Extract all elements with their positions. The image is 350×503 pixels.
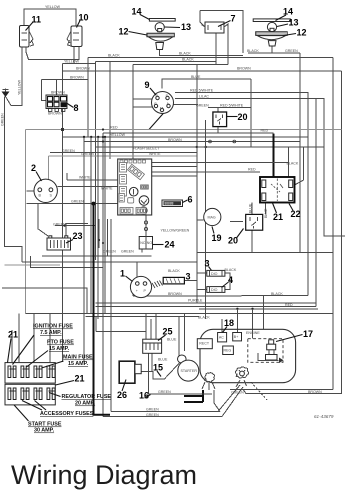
- svg-text:BLUE: BLUE: [249, 203, 253, 213]
- svg-text:LILAC: LILAC: [199, 95, 209, 99]
- wire starter cable thick: [184, 390, 203, 402]
- label 12 right: [284, 28, 307, 38]
- label start fuse: [14, 405, 62, 434]
- wire 25 down to green y394: [149, 353, 212, 394]
- svg-text:25: 25: [163, 327, 173, 337]
- svg-text:20: 20: [228, 236, 238, 246]
- svg-text:GREEN: GREEN: [121, 250, 134, 254]
- wire y262: [22, 261, 197, 263]
- wire green y104.5: [173, 104, 198, 106]
- wire switch7 top loop: [200, 11, 243, 53]
- svg-text:MAG: MAG: [208, 216, 216, 220]
- wire purple y303: [96, 303, 316, 307]
- svg-text:11: 11: [32, 15, 42, 25]
- headlamp left 12: [147, 19, 175, 50]
- svg-text:BLACK: BLACK: [108, 54, 120, 58]
- wire lamp right feed: [248, 46, 300, 53]
- label 20 upper: [227, 112, 248, 122]
- svg-text:YELLOW/GREEN: YELLOW/GREEN: [161, 229, 190, 233]
- label 19: [212, 227, 222, 244]
- label ignition fuse: [13, 324, 74, 365]
- wire 25 down to junction: [151, 353, 153, 371]
- wire module to 24: [144, 215, 147, 237]
- svg-text:BROWN: BROWN: [48, 112, 62, 116]
- connector 8: [46, 95, 67, 112]
- svg-text:15: 15: [153, 363, 163, 373]
- wire lamp left feed: [160, 50, 244, 56]
- svg-text:7.5 AMP.: 7.5 AMP.: [40, 330, 62, 336]
- wire switch9 diagonal to bus: [149, 112, 165, 130]
- wire y288: [2, 288, 87, 314]
- wire solenoid feeds: [179, 314, 185, 356]
- svg-text:8: 8: [74, 103, 79, 113]
- wire brown y71 bus: [63, 70, 342, 72]
- svg-text:BLACK: BLACK: [271, 292, 283, 296]
- label 14 right: [276, 7, 294, 21]
- svg-text:14: 14: [283, 7, 293, 17]
- switch 7: [202, 22, 228, 33]
- wire box D top y79.5: [42, 80, 89, 101]
- wire white y186.5 to module: [58, 186, 118, 188]
- svg-text:BLUE: BLUE: [264, 208, 268, 218]
- relay 10: [67, 26, 82, 51]
- wire battery plus up: [38, 204, 48, 236]
- wire white y180 to module: [67, 173, 118, 180]
- wire y147 bus: [96, 146, 324, 148]
- wire 25 feeds: [146, 314, 156, 340]
- svg-text:BLUE: BLUE: [167, 338, 177, 342]
- wire 21-22 bottom blue drop: [265, 203, 267, 215]
- svg-text:RECT: RECT: [199, 342, 210, 346]
- label 25: [158, 327, 173, 341]
- wire red-white y92.5: [175, 93, 308, 296]
- wire x103 down to green bus: [102, 128, 105, 416]
- wire ac box drop: [222, 296, 264, 339]
- label 23: [66, 231, 83, 243]
- svg-text:GREEN: GREEN: [53, 223, 66, 227]
- label 21 fuse top: [8, 330, 19, 363]
- wire thick red feed to 21-22: [273, 134, 275, 177]
- label 22 connector: [289, 204, 301, 220]
- svg-text:7: 7: [231, 14, 236, 24]
- label 20 lower: [228, 229, 244, 246]
- svg-text:AC: AC: [219, 336, 224, 340]
- svg-text:GREEN: GREEN: [146, 408, 159, 412]
- wire red y133 bus: [103, 132, 274, 134]
- relay 20 lower: [246, 214, 263, 230]
- svg-text:24: 24: [165, 240, 175, 250]
- wire green y411.5: [111, 411, 220, 413]
- b+ box: [233, 333, 242, 341]
- svg-text:NC: NC: [140, 241, 146, 245]
- svg-text:YELLOW: YELLOW: [110, 133, 126, 137]
- svg-text:21: 21: [8, 330, 18, 340]
- svg-text:BLUE: BLUE: [191, 75, 201, 79]
- connector 21-22: [260, 177, 295, 203]
- svg-text:3: 3: [186, 272, 191, 282]
- svg-text:BLACK: BLACK: [247, 49, 259, 53]
- label 13 left: [165, 22, 192, 32]
- svg-text:1: 1: [120, 269, 125, 279]
- svg-text:13: 13: [181, 22, 191, 32]
- label 2: [31, 163, 42, 181]
- label 21 connector: [273, 203, 284, 222]
- svg-text:IGNITION FUSE: IGNITION FUSE: [33, 324, 73, 330]
- resistor 26: [119, 361, 141, 383]
- wire 21-22 right diag: [295, 147, 304, 185]
- wire red y172 to 21-22: [152, 171, 260, 173]
- label 1: [120, 269, 133, 282]
- svg-text:BROWN: BROWN: [168, 138, 182, 142]
- svg-text:GREEN: GREEN: [81, 152, 94, 156]
- label 3 interlock: [186, 272, 191, 282]
- svg-text:GREEN: GREEN: [1, 113, 5, 126]
- wire relay20 lower left stub: [230, 221, 243, 223]
- svg-text:19: 19: [212, 233, 222, 243]
- svg-text:RED: RED: [285, 303, 293, 307]
- wire y267.4: [31, 256, 104, 267]
- wire relay10 left pin: [73, 47, 75, 64]
- wire 26 to solenoid path 15: [141, 363, 179, 379]
- svg-text:B+: B+: [234, 335, 239, 339]
- svg-text:BROWN: BROWN: [70, 76, 84, 80]
- svg-text:GREEN: GREEN: [196, 104, 209, 108]
- svg-text:PTO FUSE: PTO FUSE: [47, 340, 74, 346]
- wire x341.6 vertical long: [243, 71, 342, 394]
- svg-text:BROWN: BROWN: [237, 67, 251, 71]
- wire relay11 ground run: [6, 47, 23, 106]
- wire black y61.5 bus: [96, 61, 216, 63]
- wire x316 vertical: [315, 99, 317, 307]
- control module: [118, 159, 152, 215]
- label regulator fuse: [49, 393, 111, 407]
- mag switch 19: [204, 208, 221, 225]
- label 21 fuse right: [56, 374, 85, 386]
- svg-text:BLACK: BLACK: [168, 269, 180, 273]
- label 26: [117, 380, 127, 401]
- svg-text:4: 4: [228, 275, 233, 285]
- label 14 left: [132, 7, 150, 20]
- label 3 diode: [205, 259, 212, 271]
- wire switch9 left stubs: [133, 99, 153, 107]
- starter motor: [178, 360, 199, 381]
- wire connector8 stub up: [56, 80, 58, 96]
- wire y256 left: [42, 255, 152, 257]
- label 8: [67, 103, 79, 113]
- wire big box left edge: [25, 130, 27, 314]
- wire switch7 bottom down: [215, 33, 217, 65]
- svg-text:BLACK: BLACK: [179, 52, 191, 56]
- reg box: [223, 346, 234, 355]
- svg-text:YELLOW: YELLOW: [45, 5, 61, 9]
- wire module right y176: [152, 175, 197, 177]
- svg-text:REGULATOR FUSE: REGULATOR FUSE: [62, 394, 112, 400]
- connector 25: [143, 339, 162, 353]
- svg-text:9: 9: [145, 80, 150, 90]
- svg-text:21: 21: [273, 212, 283, 222]
- key switch 9: [152, 92, 174, 114]
- part number: [314, 414, 334, 419]
- wire fuse bundle verticals right: [84, 137, 105, 362]
- wire y64.5 run: [133, 65, 228, 160]
- svg-text:20 AMP.: 20 AMP.: [75, 401, 96, 407]
- svg-text:WHITE: WHITE: [101, 187, 113, 191]
- svg-text:23: 23: [73, 231, 83, 241]
- magneto scribble: [236, 367, 249, 387]
- svg-text:15 AMP.: 15 AMP.: [49, 346, 70, 352]
- wire color labels: [1, 5, 323, 417]
- label pto fuse: [27, 340, 75, 368]
- svg-text:GREEN: GREEN: [231, 391, 244, 395]
- svg-text:FLASH SELECT: FLASH SELECT: [133, 147, 160, 151]
- fuse block lower: [5, 384, 55, 405]
- wire left drops to fuses: [12, 314, 50, 362]
- svg-text:88888: 88888: [165, 202, 174, 206]
- starter solenoid bump: [178, 355, 187, 363]
- wire black y273 diode3: [197, 273, 230, 290]
- svg-text:NO: NO: [147, 241, 153, 245]
- svg-text:RED 5/WHITE: RED 5/WHITE: [190, 89, 214, 93]
- label 11: [26, 15, 42, 31]
- svg-text:20: 20: [238, 112, 248, 122]
- relay 20 upper: [213, 112, 227, 127]
- svg-text:+: +: [136, 289, 138, 293]
- svg-text:GREEN: GREEN: [285, 49, 298, 53]
- label 24: [153, 240, 175, 250]
- plug ground bracket: [258, 353, 284, 363]
- svg-text:GREEN: GREEN: [62, 149, 75, 153]
- wire switch7 right pin down: [224, 24, 228, 53]
- wire module bottom drops: [98, 219, 111, 412]
- ground symbol left: [2, 89, 10, 98]
- relay 11: [20, 26, 34, 52]
- wire magneto dashed leader: [251, 382, 267, 400]
- spark plug 17: [266, 340, 278, 360]
- label 6: [183, 195, 193, 205]
- wire clutch1 top feed: [136, 262, 138, 277]
- svg-text:BLACK: BLACK: [287, 162, 299, 166]
- wire y331.4 feed: [96, 316, 146, 331]
- svg-text:G: G: [154, 102, 157, 106]
- wire relay20a bottom y131: [217, 127, 219, 133]
- wire white y156 gray: [48, 156, 197, 179]
- svg-text:BROWN: BROWN: [76, 67, 90, 71]
- label 7: [218, 14, 236, 27]
- wire red y306.6: [96, 306, 316, 308]
- wire brown y296: [133, 281, 308, 296]
- svg-text:WHITE: WHITE: [79, 176, 91, 180]
- svg-text:GREEN: GREEN: [71, 200, 84, 204]
- label accessory fuses: [22, 401, 94, 418]
- wire y319 bus: [85, 315, 199, 317]
- pto clutch 1: [130, 276, 184, 297]
- hour meter 6: [162, 200, 183, 207]
- svg-text:DIO: DIO: [211, 272, 218, 276]
- svg-text:RED: RED: [261, 129, 269, 133]
- svg-text:21: 21: [75, 374, 85, 384]
- svg-text:YELLOW: YELLOW: [18, 79, 22, 95]
- wire yellow y63.5: [63, 63, 96, 65]
- svg-text:16: 16: [139, 391, 149, 401]
- wire yellow y137 bus: [63, 136, 309, 138]
- svg-text:YELLOW: YELLOW: [64, 60, 80, 64]
- regulator rect box: [197, 339, 212, 349]
- wire yellow top bus relays 10-11: [24, 9, 76, 26]
- wire lilac y98.5: [175, 99, 345, 237]
- svg-text:RED: RED: [248, 168, 256, 172]
- svg-text:RED: RED: [110, 126, 118, 130]
- wire pto left pin: [27, 190, 35, 192]
- svg-text:BROWN: BROWN: [308, 390, 322, 394]
- svg-text:GREEN: GREEN: [146, 413, 159, 417]
- wire green left vertical: [5, 97, 23, 263]
- wire green y152.5: [50, 152, 197, 154]
- svg-text:30 AMP.: 30 AMP.: [34, 428, 55, 434]
- wire y313.6 bus: [26, 313, 333, 315]
- svg-text:DIO: DIO: [211, 288, 218, 292]
- diode 3: [207, 270, 225, 276]
- wire vertical x110: [109, 62, 111, 160]
- wire vertical x62.5 long: [62, 64, 64, 363]
- wire vertical x95.7: [95, 62, 97, 261]
- alternator box 18: [218, 333, 227, 342]
- svg-text:6: 6: [188, 195, 193, 205]
- label 12 left: [119, 27, 147, 37]
- svg-text:BLACK: BLACK: [198, 316, 210, 320]
- svg-text:BLACK: BLACK: [182, 58, 194, 62]
- wire mag19 left stub: [197, 219, 204, 221]
- starter bendix scribble: [202, 373, 215, 390]
- title text: [11, 460, 197, 491]
- wire relay bottoms y59.5: [26, 47, 79, 60]
- wire x288.5 vertical: [288, 147, 290, 177]
- svg-text:61-43679: 61-43679: [314, 414, 334, 419]
- wire green y203.6: [27, 203, 118, 205]
- svg-text:REG: REG: [224, 349, 232, 353]
- svg-text:GREEN: GREEN: [103, 250, 116, 254]
- wire y308.8 right: [199, 308, 318, 310]
- svg-text:PURPLE: PURPLE: [188, 299, 203, 303]
- wire green y416.5: [105, 416, 222, 418]
- diode 4: [207, 287, 225, 293]
- wire module right y162.5: [152, 162, 289, 164]
- svg-text:13: 13: [289, 18, 299, 28]
- svg-text:BROWN: BROWN: [51, 91, 65, 95]
- wire 24 bottom drop: [141, 249, 143, 253]
- svg-text:MAIN FUSE: MAIN FUSE: [63, 355, 93, 361]
- wire x252 through relay20 lower: [251, 203, 253, 253]
- wire red-white y107.5 to relay20: [208, 108, 251, 113]
- svg-text:26: 26: [117, 390, 127, 400]
- wire x228 top vertical: [227, 53, 229, 65]
- headlamp right 12: [253, 19, 290, 46]
- svg-text:RED 5/WHITE: RED 5/WHITE: [220, 104, 244, 108]
- svg-text:12: 12: [297, 28, 307, 38]
- svg-text:M: M: [160, 107, 163, 111]
- wire magneto ground diagonals: [214, 385, 243, 417]
- label 9: [145, 80, 157, 95]
- svg-text:17: 17: [303, 329, 313, 339]
- svg-text:ACCESSORY FUSES: ACCESSORY FUSES: [40, 411, 94, 417]
- svg-text:BROWN: BROWN: [168, 292, 182, 296]
- svg-text:22: 22: [291, 209, 301, 219]
- svg-text:STARTER: STARTER: [181, 369, 198, 373]
- wire y225.6: [55, 224, 96, 236]
- svg-text:12: 12: [119, 27, 129, 37]
- wire x196.8 vertical: [196, 65, 198, 303]
- wire brown y389.6: [230, 389, 333, 391]
- svg-text:GREEN: GREEN: [158, 390, 171, 394]
- battery 23: [47, 236, 71, 250]
- label main fuse: [42, 355, 94, 369]
- wire switch9 top feed: [162, 79, 251, 89]
- ignition coil dashed box: [248, 339, 283, 363]
- wire diode4 left: [184, 281, 206, 290]
- wire y252.6 right: [197, 253, 333, 303]
- label 13 right: [277, 18, 299, 28]
- wire x205.7 vertical: [205, 120, 207, 319]
- engine outline: [200, 329, 296, 382]
- connector 24: [139, 237, 152, 250]
- wire module right y166.5: [152, 166, 197, 168]
- wire y266 gray: [5, 264, 61, 266]
- label 16: [139, 391, 151, 401]
- svg-text:15 AMP.: 15 AMP.: [68, 361, 89, 367]
- wire blue y81: [250, 79, 252, 147]
- label 18: [223, 318, 235, 333]
- label 4: [222, 275, 234, 288]
- wire x332.8 vertical long: [332, 58, 334, 390]
- svg-text:ENGINE: ENGINE: [246, 331, 260, 335]
- svg-text:BLUE: BLUE: [158, 358, 168, 362]
- svg-text:WHITE: WHITE: [149, 152, 161, 156]
- wire vertical x88: [87, 58, 89, 138]
- wire black y57.5 bus: [88, 57, 333, 59]
- svg-text:2: 2: [31, 163, 36, 173]
- pto switch 2: [34, 179, 57, 202]
- label 10: [77, 13, 89, 28]
- wire gray y129.5 bus: [26, 128, 342, 131]
- label 17: [276, 329, 313, 342]
- wire x300 vertical: [299, 53, 301, 253]
- svg-text:BLACK: BLACK: [225, 268, 237, 272]
- svg-text:18: 18: [224, 318, 234, 328]
- wire battery cable thick: [92, 202, 111, 415]
- fuse block upper: [5, 363, 55, 384]
- wire y141.5 bus: [84, 140, 300, 143]
- label 15: [153, 363, 163, 377]
